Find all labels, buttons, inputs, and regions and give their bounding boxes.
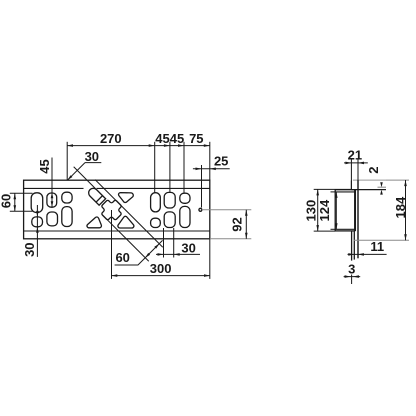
svg-text:92: 92: [230, 217, 245, 231]
extension line 45b: [169, 142, 171, 193]
dim 60 left line: [14, 193, 16, 211]
ext 184 bottom: [354, 239, 409, 241]
flange top surface: [353, 179, 386, 181]
slot E1: [164, 192, 175, 208]
construction line A tangent to cross: [95, 180, 163, 248]
diagonal slot: [87, 186, 106, 205]
arrow 11 right: [358, 253, 364, 256]
arrow at 169.9: [164, 144, 170, 147]
leader 30 diagonal: [68, 163, 85, 180]
arrow 124 bottom: [335, 223, 338, 229]
arrow 184 bottom: [404, 234, 407, 240]
arrow 3 left: [345, 275, 351, 278]
dimension line 30br: [156, 253, 200, 255]
arrow 92 bottom: [245, 233, 248, 239]
svg-text:45: 45: [170, 131, 184, 146]
arrow 30bl lower (tip up at hole bottom): [36, 227, 39, 233]
hole F1: [180, 193, 190, 203]
arrow 21 right: [358, 162, 364, 165]
plate inner bottom line: [24, 230, 210, 232]
dimension line 130: [317, 189, 319, 231]
diagonal slot and cross hole: [83, 182, 125, 224]
arrow 21 left: [345, 162, 351, 165]
dimension line 3: [344, 276, 361, 278]
triangle T3 apex-up-left: [118, 216, 134, 228]
arrow 60L top: [14, 193, 17, 199]
ext 92 top from small hole: [202, 209, 251, 211]
hole B2: [47, 212, 58, 226]
dim 2 arrows: [380, 182, 383, 187]
ext 21 right / wall extended up: [357, 159, 359, 180]
dim 30 bl vertical line: [36, 205, 38, 257]
svg-text:45: 45: [37, 159, 52, 173]
dimension line 124: [335, 192, 337, 229]
slot chamfer line: [96, 196, 103, 203]
plate outline: [24, 180, 210, 239]
arrow at 209.8: [204, 144, 210, 147]
hole A2: [32, 217, 43, 227]
arrow at 154.7: [149, 144, 155, 147]
arrow 130 bottom: [316, 225, 319, 231]
svg-text:75: 75: [189, 131, 203, 146]
arrow on line A: [154, 243, 160, 249]
svg-text:25: 25: [214, 154, 228, 169]
svg-text:45: 45: [155, 131, 169, 146]
svg-text:3: 3: [348, 262, 355, 277]
box inner top line: [335, 191, 355, 193]
svg-text:11: 11: [370, 239, 384, 254]
ext 21 left: [350, 159, 352, 189]
arrow 11 left: [348, 253, 354, 256]
arrow 45v bottom: [51, 201, 54, 207]
dimension line 300: [112, 275, 210, 277]
extension line 25 left: [201, 165, 203, 208]
ext 124 top: [331, 191, 336, 193]
svg-text:300: 300: [150, 261, 172, 276]
dimension line 184: [405, 180, 407, 240]
ext 300 left (cross center): [111, 210, 113, 279]
arrow 45v top: [51, 192, 54, 198]
bottom lip inner: [353, 231, 355, 260]
dimension line 25: [193, 168, 230, 170]
box inner bottom line: [335, 228, 355, 230]
arrow 92 top: [245, 210, 248, 216]
svg-text:60: 60: [115, 250, 129, 265]
coupling box outline: [335, 190, 355, 231]
arrow 30br left outside: [158, 253, 164, 256]
ext 130 bottom: [314, 230, 336, 232]
ext 2 upper short line: [378, 186, 387, 188]
extension line 75: [183, 142, 185, 193]
construction line B tangent to cross: [102, 215, 148, 261]
svg-text:21: 21: [348, 148, 362, 163]
svg-text:30: 30: [22, 242, 37, 256]
slot A1: [31, 193, 43, 213]
leader 60 underline: [115, 264, 138, 266]
svg-text:124: 124: [317, 199, 332, 221]
dimension line 21: [344, 162, 368, 164]
cross hole: [97, 196, 125, 224]
extension line 270 left: [66, 142, 68, 180]
dimension line 92: [245, 210, 247, 239]
extension line 45a: [154, 142, 156, 193]
dimension line top: [67, 145, 210, 147]
triangle T1 apex-down: [119, 193, 134, 203]
slot D1: [151, 193, 161, 212]
flange left corner vertical: [350, 181, 352, 190]
wall outer edge: [357, 180, 359, 258]
hole D2: [151, 218, 161, 227]
arrow 25 left outside: [196, 168, 202, 171]
triangle T2 apex-up: [87, 217, 101, 228]
leader 30 top underline: [85, 162, 101, 164]
small hole: [199, 208, 202, 211]
ext 300 right (plate edge down): [209, 239, 211, 279]
arrow 30br right outside: [174, 253, 180, 256]
ext 92/184 bottom right of plate: [210, 238, 252, 240]
arrow 184 top: [404, 180, 407, 186]
ext 184 top: [386, 179, 409, 181]
svg-text:60: 60: [0, 194, 13, 208]
hole C2: [62, 207, 72, 227]
svg-text:184: 184: [393, 196, 408, 218]
leader 30 arrowhead: [67, 175, 72, 180]
ext 60L top: [10, 192, 33, 194]
wall inner edge: [354, 190, 356, 231]
hole E2: [164, 212, 175, 228]
ext 124 bottom: [331, 228, 336, 230]
ext 3 below: [351, 275, 353, 285]
ext 30br left: [163, 228, 165, 258]
bottom lip outer: [351, 231, 353, 261]
arrow 25 right outside: [210, 168, 216, 171]
svg-text:30: 30: [181, 240, 195, 255]
arrow on line B: [144, 253, 150, 259]
ext 130 top: [314, 188, 352, 190]
hole F2: [180, 206, 190, 227]
construction line upper (slot side extension): [74, 167, 96, 189]
flange bottom line: [351, 189, 386, 191]
arrow at 184.0: [178, 144, 184, 147]
dimension 45 vertical line: [51, 158, 53, 208]
svg-text:30: 30: [85, 149, 99, 164]
slot B1: [47, 193, 57, 207]
arrow 30bl upper (tip down at hole top): [36, 211, 39, 217]
hole C1: [62, 192, 72, 203]
plate inner top line: [24, 187, 210, 189]
svg-text:2: 2: [366, 167, 381, 174]
svg-text:270: 270: [100, 131, 122, 146]
leader 60 perpendicular: [138, 240, 163, 265]
ext 60L bottom: [10, 210, 33, 212]
arrow 60L bottom: [14, 205, 17, 211]
arrow 124 top: [335, 192, 338, 198]
arrow 130 top: [316, 189, 319, 195]
ext 30br right: [173, 228, 175, 258]
arrow 3 right: [353, 275, 359, 278]
dimension line 11: [348, 253, 387, 255]
extension line right edge up: [209, 142, 211, 180]
